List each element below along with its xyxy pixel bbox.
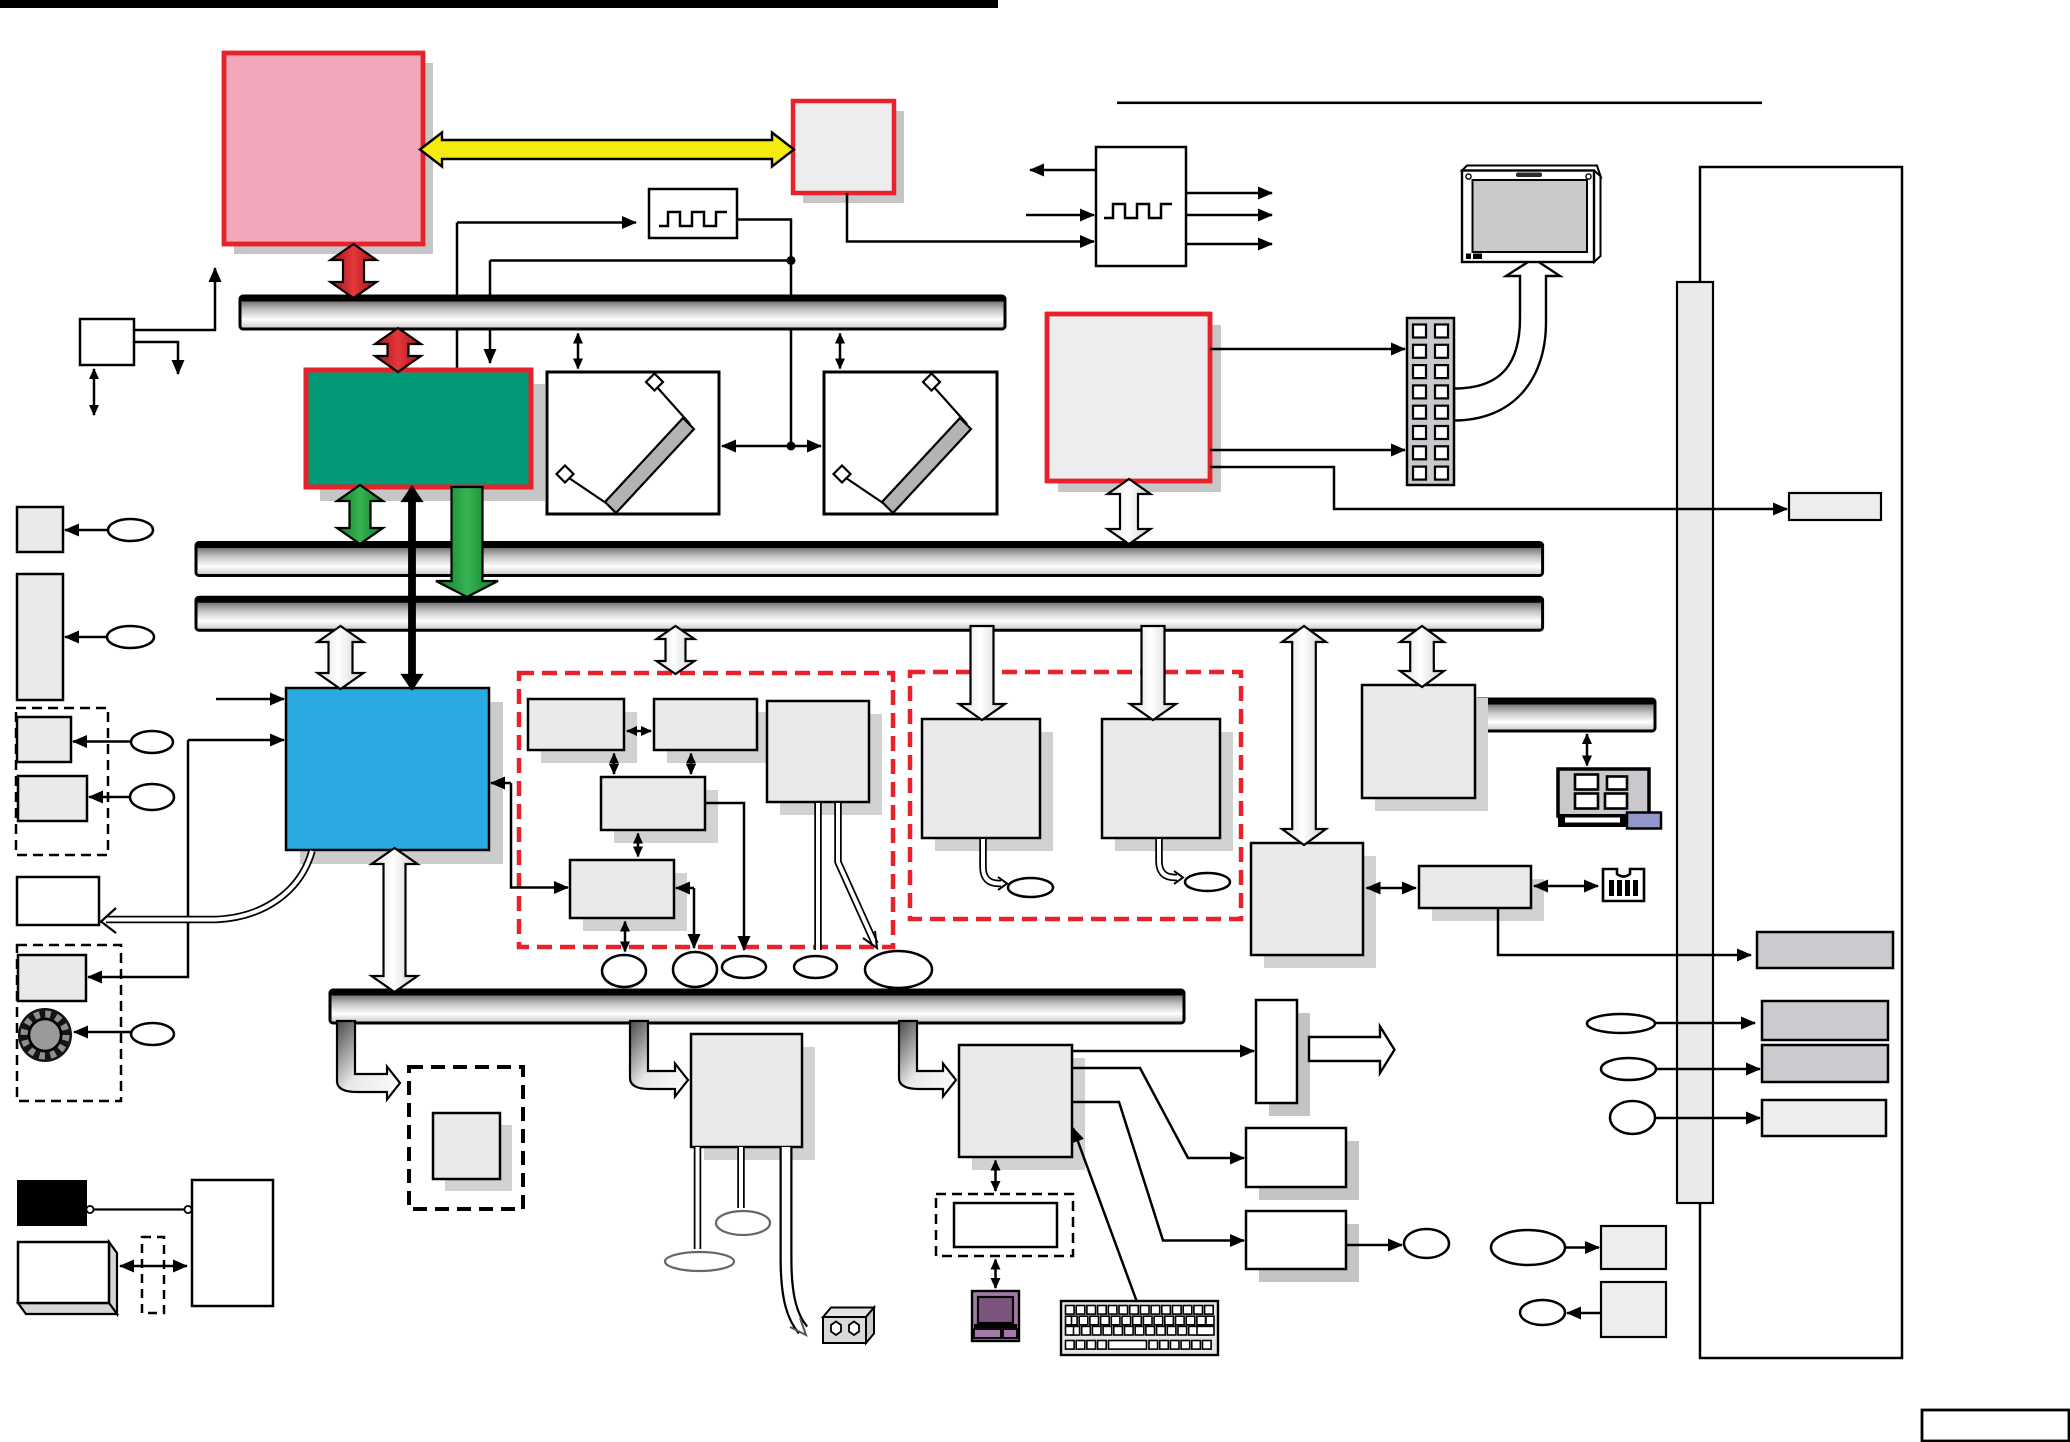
wire clock down to memory junction (790, 261, 793, 447)
wire: volume label arrow (74, 1031, 131, 1034)
net label: line-in (1491, 1230, 1565, 1265)
wire: clock out 2 (1186, 214, 1272, 217)
net label: handset (865, 951, 932, 988)
wire: serial ellipse arrow (1655, 1117, 1760, 1120)
wire: interrupt elbow down (134, 342, 178, 374)
wire: AC97 right elbow B (693, 888, 696, 948)
block: DC-DC board (192, 1180, 273, 1306)
wire clock to SDRAM slot1 (489, 261, 492, 364)
icon: port replicator connector (1558, 769, 1661, 829)
block: security chip (433, 1113, 512, 1191)
arrow: ISA bus to power controller (bent) (630, 1021, 688, 1097)
bus: memory bus (196, 543, 1543, 576)
bus: host/FSB bus (240, 296, 1005, 329)
junction dot memory (787, 442, 796, 451)
wire: audio chip to card (double) (1534, 885, 1598, 888)
block: parallel port (1762, 1045, 1888, 1082)
dashed group: mini-PCI card (910, 672, 1241, 919)
arrow: PCI bus to cardbus (white) (1400, 626, 1444, 687)
dashed group: modem/audio card (519, 673, 893, 947)
wire: DSP to codec (double) (690, 754, 693, 775)
wire: battery to DC-DC (86, 1206, 191, 1213)
junction dot clock (787, 256, 796, 265)
wire: interrupt elbow up (134, 268, 215, 330)
wire: south bridge to audio amp A (188, 739, 284, 742)
block: line-in jack (1601, 1226, 1666, 1269)
wire: interrupt double arrow (93, 369, 96, 415)
arrow: PCI bus to modem group (white) (657, 626, 695, 674)
wire: keyboard to KBC (1073, 1128, 1137, 1302)
wire: KBC to EEPROM (1072, 1050, 1254, 1053)
block: serial port (1762, 1100, 1886, 1136)
wire: clock out left (1030, 169, 1096, 172)
wire: button label arrow (89, 796, 130, 799)
icon: AC inlet connector (823, 1308, 874, 1344)
icon: keyboard (1061, 1301, 1218, 1355)
wire clockgen1 right output (737, 220, 791, 261)
block: kbd/mouse port (1246, 1211, 1359, 1282)
block: SDRAM slot 1 (547, 372, 719, 514)
cable: DAA to RJ11 A (814, 803, 822, 950)
block: cardbus controller (1362, 685, 1488, 811)
cable: power to battery terminal (694, 1147, 702, 1249)
block: legend box (1922, 1410, 2069, 1441)
block: fdd connector (1246, 1128, 1359, 1200)
wire: video to LCD connector 2 (1210, 449, 1405, 452)
wire: slot1 refresh (double) (577, 334, 580, 369)
block: line-out jack (1601, 1282, 1666, 1337)
block: LED bank (17, 717, 71, 762)
net label: fan (108, 519, 153, 541)
dashed group: volume (17, 945, 121, 1101)
block: clock generator 1 (649, 189, 737, 238)
wire: ctrl to codec (double) (613, 754, 616, 775)
cable: south bridge to battery (106, 851, 312, 920)
dashed group: power (16, 708, 108, 855)
arrow: north bridge to south bridge (black) (403, 487, 422, 689)
block: keyboard controller (959, 1045, 1085, 1170)
block: LAN controller (922, 719, 1053, 851)
cable: wireless to antenna (1159, 839, 1177, 878)
block: modem DSP (654, 699, 770, 763)
block: edge connector bar (1677, 282, 1713, 1203)
net label: speaker (673, 952, 717, 987)
block: interrupt controller (80, 319, 134, 365)
block: LCD interface (1789, 493, 1881, 520)
wire: LED label arrow (73, 740, 131, 743)
wire: AC97 right elbow A (676, 887, 694, 890)
wire clock feedback horizontal (490, 259, 791, 262)
block: CRT port (1757, 932, 1893, 968)
wire: RTC input to south bridge (216, 698, 284, 701)
arrow: ISA bus to security chip (bent) (337, 1021, 400, 1100)
wire: AC97 link B (511, 783, 568, 888)
net label: CRT (1587, 1014, 1655, 1033)
arrow: north bridge to memory bus (green) (337, 485, 383, 544)
icon: DIMM module 2 (834, 374, 972, 514)
wire: video to LCD interface (1210, 467, 1787, 509)
arrow: PCI bus to wireless (white) (1130, 626, 1176, 720)
open arrowhead battery (101, 908, 116, 933)
arrow: host bus to north bridge (red) (375, 328, 421, 372)
icon: LCD connector pin header (1407, 318, 1454, 485)
net label: USB (1601, 1058, 1656, 1080)
block: docking connector frame (1700, 167, 1902, 1358)
wire: kbd port to mouse (1346, 1244, 1402, 1247)
clock waveform glyph 1 (659, 212, 727, 226)
net label: serial (1610, 1101, 1655, 1134)
net label: volume (131, 1023, 174, 1045)
block: USB port (1762, 1001, 1888, 1040)
block: thermal sensor (17, 574, 63, 700)
icon: memory card (1603, 869, 1644, 901)
wire: AC97 link A (491, 782, 511, 785)
wire: memory clock into slot2 (junction) (791, 445, 821, 448)
net label: antenna (1185, 873, 1230, 891)
arrow: EEPROM programming port (outline) (1309, 1027, 1395, 1074)
arrow: CPU to host bus (red) (331, 244, 377, 298)
net label: LED (131, 731, 173, 753)
block: super I/O (1251, 843, 1376, 968)
title bar (0, 0, 998, 8)
wire: sensor label arrow (65, 636, 107, 639)
net label: line-out (1520, 1300, 1565, 1325)
wire: video to LCD connector 1 (1210, 348, 1405, 351)
title underline (1117, 102, 1762, 105)
icon: DIMM module 1 (557, 374, 695, 514)
wire: adapter to DC-DC (double) (120, 1265, 187, 1268)
wire: clock out 3 (1186, 243, 1272, 246)
arrow: LVDS cable to LCD (outline) (1454, 259, 1560, 421)
open arrowhead wireless (1174, 871, 1183, 884)
wire: KBC to fdd connector (1072, 1068, 1244, 1158)
wire: modem ctrl to DSP (double) (627, 730, 651, 733)
wire: touchpad to floppy (double) (994, 1260, 997, 1289)
block: fan (17, 507, 63, 552)
wire: audio chip output (1498, 908, 1751, 955)
block: CPU (224, 53, 433, 254)
block: audio amp (18, 955, 86, 1001)
volume knob (18, 1008, 72, 1062)
block: touchpad (954, 1203, 1057, 1247)
arrow: north bridge to PCI bus (green) (436, 487, 498, 597)
block: SDRAM slot 2 (824, 372, 997, 514)
block: wireless controller (1102, 719, 1233, 851)
wire: L2 cache to clock generator 2 (847, 193, 1094, 242)
wire: line-in arrow (1565, 1246, 1599, 1249)
wire: KBC to touchpad (double) (994, 1161, 997, 1192)
arrow: ISA bus to keyboard controller (bent) (899, 1021, 956, 1097)
dashed group: security chip (409, 1067, 523, 1209)
net label: RJ45 (1008, 878, 1053, 897)
wire: slot2 refresh (double) (839, 334, 842, 369)
dashed group: DC jack (142, 1237, 164, 1313)
bus: audio link (1475, 699, 1655, 731)
open arrowhead RJ11 (863, 931, 877, 948)
wire: CRT ellipse arrow (1655, 1022, 1755, 1025)
cable: DAA to RJ11 B (838, 803, 875, 944)
block: modem DAA (767, 701, 882, 815)
block: power supply controller (691, 1034, 815, 1160)
block: audio chip (1419, 866, 1544, 921)
wire: memory clock into slot1 (junction) (722, 445, 791, 448)
cable: power to DC in (737, 1147, 745, 1208)
net label: mic (602, 955, 646, 987)
wire: USB ellipse arrow (1656, 1068, 1760, 1071)
wire clockgen1 left input vertical (456, 223, 459, 371)
wire: superIO to audio chip (double) (1367, 887, 1417, 890)
wire clockgen1 left input (457, 221, 636, 224)
block: north bridge (306, 370, 545, 501)
wire: fan label arrow (65, 529, 108, 532)
arrow: south bridge to ISA bus (white) (372, 848, 418, 992)
wire: clock out 1 (1186, 192, 1272, 195)
net label: battery terminal (665, 1252, 734, 1271)
net label: power btn (130, 784, 174, 810)
net label: DC in (716, 1211, 770, 1235)
block: clock generator 2 (1096, 147, 1186, 266)
block: serial EEPROM (1256, 1000, 1310, 1116)
arrow: CPU FSB to L2 cache (yellow) (420, 133, 794, 167)
block: power button (18, 776, 87, 821)
wire: AC97 to mic jack (double) (624, 922, 627, 952)
clock waveform glyph 2 (1104, 204, 1172, 218)
wire: codec to AC97 (double) (637, 834, 640, 857)
block: modem codec (601, 777, 718, 843)
wire: KBC to kbd port (1072, 1102, 1244, 1241)
block: L2 cache (793, 101, 904, 203)
block: AC adapter 3D (18, 1242, 117, 1314)
block: audio codec AC97 (570, 860, 687, 931)
block: battery pack (17, 1180, 87, 1226)
wire: DAA to ring (down) (705, 803, 744, 950)
block: south bridge (286, 688, 503, 864)
wire: line-out arrow (1567, 1312, 1601, 1315)
wire: crystal to clock generator 2 (1026, 214, 1094, 217)
icon: LCD panel (1462, 166, 1601, 263)
net label: RJ11 (794, 956, 837, 978)
open arrowhead AC (790, 1318, 806, 1335)
net label: ring (722, 956, 766, 978)
arrow: PCI bus to LAN (white) (959, 626, 1005, 720)
block: RTC battery (17, 877, 99, 925)
net label: mouse (1404, 1229, 1449, 1258)
net label: thermal (107, 626, 154, 648)
bus: ISA/LPC bus (330, 990, 1184, 1023)
cable: LAN to RJ45 (983, 839, 1001, 884)
wire: dock arrow (double) (1586, 734, 1589, 766)
arrow: PCI bus to super I/O (white) (1282, 626, 1326, 845)
block: modem controller (528, 699, 637, 763)
cable: power to AC plug (786, 1147, 803, 1330)
open arrowhead LAN (998, 877, 1007, 890)
icon: external floppy drive (972, 1291, 1019, 1341)
dashed group: touchpad (936, 1194, 1073, 1256)
block: video controller (1047, 314, 1221, 492)
wire: south bridge to audio amp B (88, 740, 188, 977)
arrow: PCI bus to south bridge (white) (318, 626, 364, 689)
arrow: video to memory bus (white) (1108, 479, 1151, 544)
bus: PCI bus (196, 597, 1543, 630)
